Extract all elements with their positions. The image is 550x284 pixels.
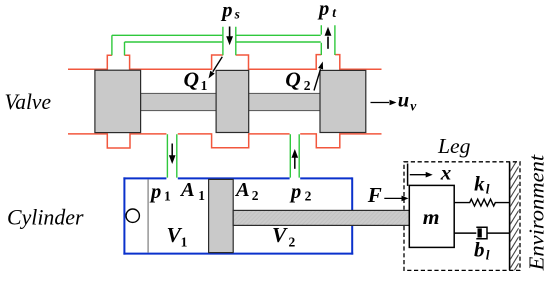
svg-text:1: 1 xyxy=(164,189,171,204)
svg-text:Leg: Leg xyxy=(437,134,471,158)
svg-text:1: 1 xyxy=(198,188,205,203)
svg-text:V: V xyxy=(272,223,288,247)
svg-text:1: 1 xyxy=(181,234,188,249)
svg-text:2: 2 xyxy=(305,189,312,204)
svg-text:p: p xyxy=(220,0,232,22)
svg-text:m: m xyxy=(423,205,440,229)
svg-text:Environment: Environment xyxy=(525,154,549,272)
svg-text:Cylinder: Cylinder xyxy=(7,204,84,229)
svg-text:p: p xyxy=(289,181,301,203)
svg-text:F: F xyxy=(367,183,382,207)
svg-text:1: 1 xyxy=(201,78,208,93)
svg-text:2: 2 xyxy=(304,78,311,93)
svg-text:k: k xyxy=(474,172,485,196)
svg-text:s: s xyxy=(234,6,240,21)
svg-text:l: l xyxy=(486,248,490,263)
svg-text:2: 2 xyxy=(289,234,296,249)
svg-text:Valve: Valve xyxy=(5,89,52,114)
svg-text:l: l xyxy=(486,181,490,196)
svg-text:A: A xyxy=(179,179,195,201)
svg-text:Q: Q xyxy=(285,68,301,92)
svg-text:b: b xyxy=(474,238,485,262)
svg-text:2: 2 xyxy=(252,188,259,203)
svg-text:t: t xyxy=(332,5,337,20)
svg-text:Q: Q xyxy=(184,68,200,92)
svg-text:x: x xyxy=(440,161,452,185)
svg-text:v: v xyxy=(410,99,417,114)
svg-text:u: u xyxy=(398,90,409,112)
svg-text:p: p xyxy=(149,181,161,203)
svg-text:A: A xyxy=(234,179,250,201)
svg-text:p: p xyxy=(317,0,329,20)
